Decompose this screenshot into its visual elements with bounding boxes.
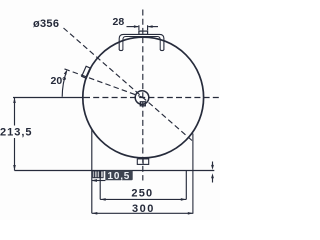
dim 213,5 vertical line: [14, 98, 16, 171]
leader line for 10,5: [92, 180, 106, 182]
left stand leg: [91, 130, 93, 214]
dim 213,5 top arrow: [13, 98, 16, 104]
dim 28 line left with arrow: [127, 26, 139, 28]
svg-text:ø356: ø356: [33, 18, 59, 30]
dim 250 right arrow: [181, 198, 187, 201]
vertical centerline: [142, 10, 144, 181]
label 213,5 white backing: [0, 126, 34, 139]
right stand leg / 300 right riser: [192, 134, 194, 214]
leader arrow 10,5: [91, 179, 97, 182]
dim 300 left arrow: [92, 212, 98, 215]
250 right riser: [185, 171, 187, 200]
svg-text:10,5: 10,5: [108, 171, 131, 182]
bottom tab divider: [142, 159, 144, 165]
horizontal centerline solid left part: [13, 97, 84, 99]
arc arrow top: [64, 70, 67, 75]
bracket saddle outer outline: [119, 34, 164, 50]
dim 300 right arrow: [188, 212, 194, 215]
right small thickness dim: [212, 162, 214, 168]
20 degree line: [65, 69, 144, 98]
bracket left foot close: [119, 49, 123, 52]
horizontal centerline dashed: [84, 97, 219, 99]
dim 250 left arrow: [100, 198, 106, 201]
svg-text:300: 300: [132, 203, 155, 215]
fitting rectangle on upper-left of circle: [82, 66, 91, 78]
hub circle: [135, 91, 149, 105]
bracket saddle inner outline: [123, 37, 160, 51]
diameter leader line ø356: [64, 28, 194, 142]
hub keyway notch: [140, 102, 145, 106]
svg-text:28: 28: [113, 16, 125, 28]
dim 213,5 bottom arrow: [13, 165, 16, 171]
foot hatching: [95, 171, 101, 178]
label 10,5 highlight box: [105, 170, 132, 180]
angular dim arc 20deg: [62, 71, 66, 97]
floor / base line: [15, 170, 215, 172]
dim 300 line: [92, 212, 194, 214]
top tab on bracket: [139, 31, 148, 34]
dim 28 line right with arrow: [148, 26, 158, 28]
bottom tab under circle: [137, 159, 148, 165]
dim 250 line: [100, 198, 186, 200]
250 left riser: [99, 171, 101, 200]
left foot block: [93, 171, 103, 178]
bracket right foot close: [160, 49, 164, 52]
svg-text:213,5: 213,5: [0, 127, 33, 139]
svg-text:250: 250: [131, 187, 153, 199]
tank shell circle: [83, 37, 204, 158]
dim 28 extension ticks: [139, 25, 148, 30]
svg-text:20°: 20°: [51, 75, 67, 87]
